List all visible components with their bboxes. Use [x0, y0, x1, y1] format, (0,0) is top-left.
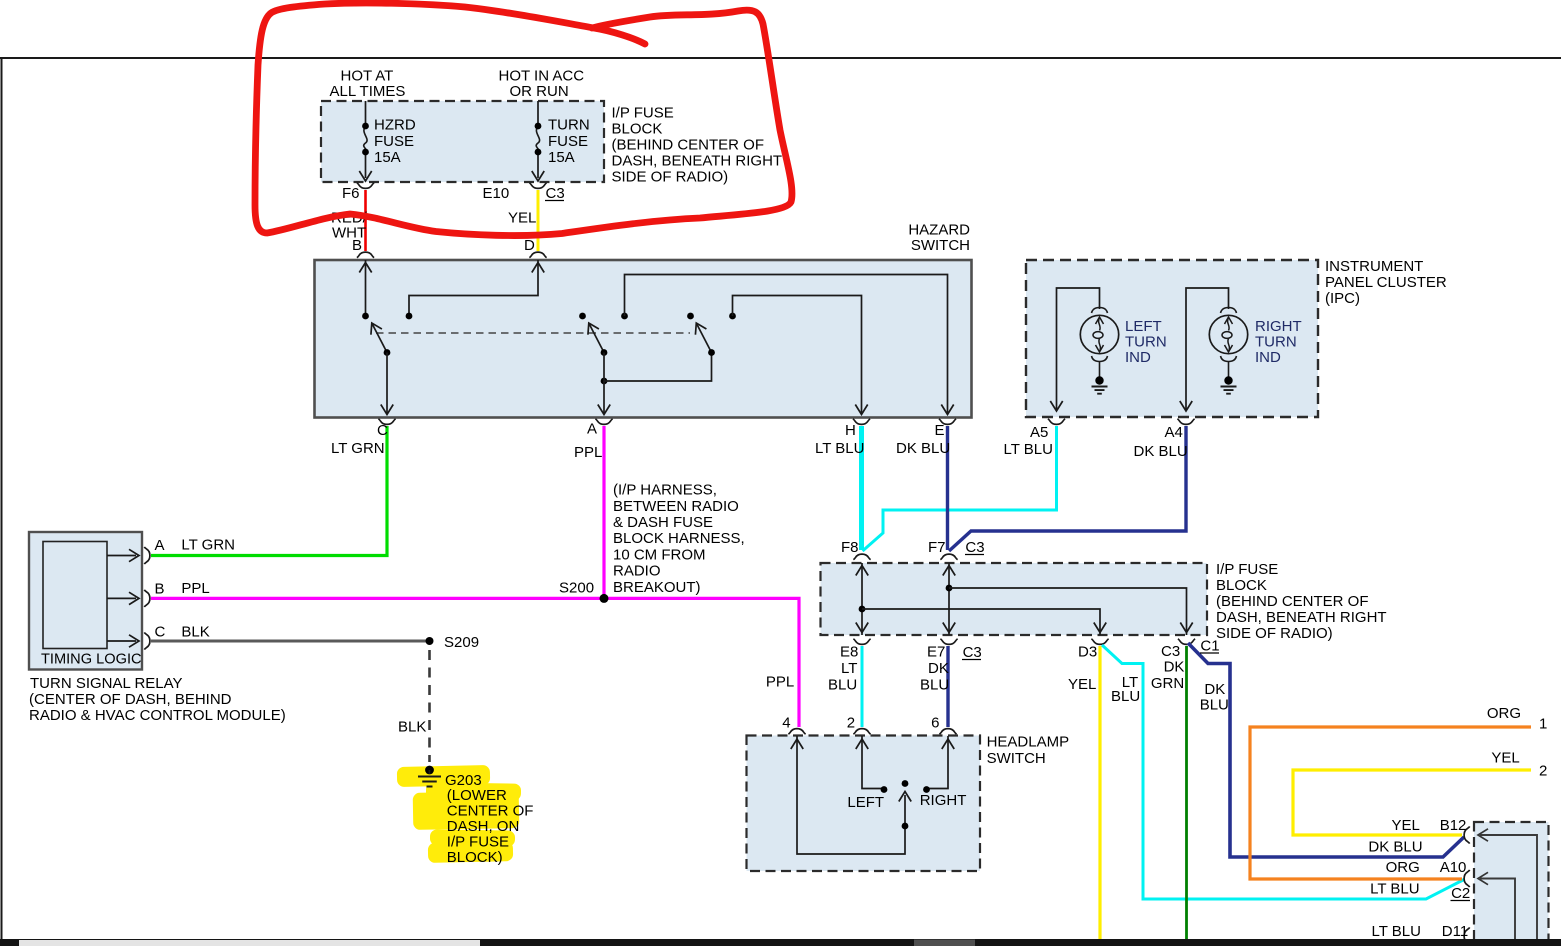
wire LT BLU H to F8 [859, 426, 864, 550]
svg-text:E8: E8 [840, 644, 858, 661]
svg-text:6: 6 [931, 715, 939, 732]
svg-text:LEFT: LEFT [1125, 318, 1162, 335]
svg-text:LEFT: LEFT [847, 794, 884, 811]
svg-text:BLK: BLK [181, 623, 209, 640]
turn signal relay outer box [29, 532, 142, 670]
svg-text:ORG: ORG [1386, 859, 1420, 876]
fuse block feed E7 [948, 563, 950, 635]
branch to C3 [949, 588, 1187, 635]
wire DK BLU C1 to B12 [1188, 643, 1464, 857]
connector A [595, 419, 612, 425]
svg-text:BLOCK: BLOCK [612, 121, 663, 138]
branch to D3 [862, 609, 1100, 635]
wire PPL A to S200 to headlamp 4 [602, 426, 605, 598]
svg-text:BLU: BLU [1111, 688, 1140, 705]
svg-text:B12: B12 [1440, 817, 1467, 834]
I/P fuse block (middle) [821, 563, 1208, 635]
connector B12 [1464, 826, 1470, 843]
svg-text:IND: IND [1255, 349, 1281, 366]
svg-text:D3: D3 [1078, 644, 1097, 661]
connector relay B [144, 590, 150, 607]
yellow highlighter marks over G203 note [397, 765, 490, 787]
hand-drawn red annotation loop [255, 3, 792, 236]
svg-text:RADIO & HVAC CONTROL MODULE): RADIO & HVAC CONTROL MODULE) [29, 707, 286, 724]
wire ORG to A10 [1250, 727, 1531, 879]
svg-text:H: H [845, 422, 856, 439]
svg-text:IND: IND [1125, 349, 1151, 366]
splice S200 [600, 594, 609, 603]
svg-text:D11: D11 [1442, 923, 1468, 940]
svg-text:DK BLU: DK BLU [1368, 839, 1422, 856]
svg-text:PPL: PPL [181, 580, 209, 597]
wire DK BLU E7 to headlamp 6 [946, 646, 949, 727]
svg-text:C3: C3 [965, 539, 984, 556]
right turn indicator lamp [1209, 308, 1247, 362]
svg-text:SIDE OF RADIO): SIDE OF RADIO) [1216, 625, 1333, 642]
connector A10 C2 [1464, 870, 1470, 887]
svg-text:D: D [524, 237, 535, 254]
connector relay C [144, 632, 150, 649]
svg-text:PPL: PPL [574, 444, 602, 461]
wire DK BLU A4 to F7 [949, 426, 1186, 551]
IPC wiring right [1186, 288, 1229, 411]
fuse HZRD FUSE 15A [365, 101, 367, 178]
svg-text:C3: C3 [963, 644, 982, 661]
hazard switch box [315, 260, 972, 418]
connector F8 [853, 554, 870, 560]
dashed BLK wire S209 to G203 [428, 650, 431, 762]
connector D [529, 252, 546, 258]
svg-text:BLU: BLU [1200, 697, 1229, 714]
svg-text:TURN: TURN [1255, 333, 1297, 350]
connector E8 [853, 639, 870, 645]
headlamp switch internal wiring [797, 736, 905, 854]
hazard switch internal wiring [365, 260, 367, 316]
svg-text:15A: 15A [374, 149, 401, 166]
I/P fuse block (top) [321, 101, 604, 182]
svg-text:HOT AT: HOT AT [341, 68, 394, 85]
svg-text:C1: C1 [1200, 637, 1219, 654]
wire LT GRN C to relay A [151, 426, 387, 556]
connector 4 [788, 729, 805, 735]
svg-text:GRN: GRN [1151, 675, 1184, 692]
svg-text:LT GRN: LT GRN [331, 440, 385, 457]
svg-text:DASH, BENEATH RIGHT: DASH, BENEATH RIGHT [1216, 609, 1387, 626]
svg-text:LT BLU: LT BLU [1372, 923, 1421, 940]
switch pole 2 [589, 324, 604, 353]
svg-text:YEL: YEL [508, 210, 536, 227]
svg-text:10 CM FROM: 10 CM FROM [613, 546, 706, 563]
ground (left lamp) [1095, 376, 1103, 384]
wire RED/WHT F6 to B [364, 190, 367, 251]
svg-text:OR RUN: OR RUN [510, 83, 569, 100]
instrument panel cluster box [1026, 260, 1318, 417]
svg-text:BLOCK HARNESS,: BLOCK HARNESS, [613, 530, 745, 547]
relay output arrows [107, 555, 136, 557]
svg-text:HZRD: HZRD [374, 117, 416, 134]
svg-text:SWITCH: SWITCH [911, 237, 970, 254]
svg-text:E: E [935, 422, 945, 439]
wire LT BLU E8 to headlamp 2 [861, 646, 864, 727]
connector F6 [357, 183, 374, 189]
svg-text:A: A [587, 421, 597, 438]
switch gang dashed link [376, 332, 690, 334]
svg-text:HAZARD: HAZARD [908, 222, 970, 239]
svg-text:DK: DK [1204, 681, 1225, 698]
svg-text:YEL: YEL [1491, 750, 1519, 767]
svg-text:S209: S209 [444, 634, 479, 651]
svg-text:A4: A4 [1165, 424, 1183, 441]
svg-text:C3: C3 [1161, 643, 1180, 660]
connector E10 C3 [529, 183, 546, 189]
left turn indicator lamp [1080, 308, 1118, 362]
wire DK GRN C3 down [1185, 646, 1188, 940]
svg-text:BETWEEN RADIO: BETWEEN RADIO [613, 498, 739, 515]
rail to H [733, 296, 862, 415]
svg-text:(I/P HARNESS,: (I/P HARNESS, [613, 482, 717, 499]
connector E7 C3 [940, 639, 957, 645]
timing logic inner box [43, 542, 107, 649]
wire YEL E10 to D [537, 190, 540, 251]
svg-text:BLK: BLK [398, 719, 426, 736]
svg-text:FUSE: FUSE [548, 133, 588, 150]
connector relay A [144, 547, 150, 564]
svg-text:B: B [155, 581, 165, 598]
svg-text:PANEL CLUSTER: PANEL CLUSTER [1325, 274, 1447, 291]
connector A5 [1048, 419, 1065, 425]
svg-text:E7: E7 [927, 644, 945, 661]
svg-text:LT BLU: LT BLU [815, 440, 864, 457]
svg-text:BLOCK: BLOCK [1216, 577, 1267, 594]
bottom scrollbar [0, 939, 1561, 946]
svg-text:& DASH FUSE: & DASH FUSE [613, 514, 713, 531]
svg-text:C3: C3 [546, 185, 565, 202]
wire LT BLU D3 branch to C2 [1102, 645, 1464, 899]
fuse TURN FUSE 15A [537, 101, 539, 178]
svg-text:YEL: YEL [1392, 817, 1420, 834]
right connector box (radio) [1474, 822, 1549, 946]
svg-text:B: B [352, 237, 362, 254]
wire DK BLU E to F7 [946, 426, 949, 550]
svg-text:SWITCH: SWITCH [987, 750, 1046, 767]
svg-text:TURN SIGNAL RELAY: TURN SIGNAL RELAY [30, 675, 183, 692]
svg-text:DK BLU: DK BLU [896, 440, 950, 457]
svg-text:2: 2 [847, 715, 855, 732]
connector E [939, 419, 956, 425]
svg-text:DASH, BENEATH RIGHT: DASH, BENEATH RIGHT [612, 153, 783, 170]
svg-text:F7: F7 [928, 539, 946, 556]
svg-text:E10: E10 [483, 185, 510, 202]
svg-text:(BEHIND CENTER OF: (BEHIND CENTER OF [1216, 593, 1369, 610]
svg-text:TURN: TURN [548, 117, 590, 134]
svg-text:RIGHT: RIGHT [920, 792, 967, 809]
svg-text:ORG: ORG [1487, 705, 1521, 722]
svg-text:S200: S200 [559, 579, 594, 596]
svg-text:DK: DK [1164, 659, 1185, 676]
wire BLK relay C to S209 [151, 640, 430, 643]
ground (right lamp) [1224, 376, 1232, 384]
headlamp switch box [747, 736, 981, 872]
svg-text:ALL TIMES: ALL TIMES [330, 83, 406, 100]
svg-text:RADIO: RADIO [613, 563, 661, 580]
svg-text:LT: LT [841, 660, 857, 677]
svg-text:BREAKOUT): BREAKOUT) [613, 579, 701, 596]
svg-text:RIGHT: RIGHT [1255, 318, 1302, 335]
splice S209 [426, 637, 434, 645]
svg-text:HEADLAMP: HEADLAMP [987, 734, 1070, 751]
wire LT BLU A5 to F8 [863, 426, 1057, 551]
svg-text:I/P FUSE: I/P FUSE [1216, 561, 1278, 578]
connector H [853, 419, 870, 425]
svg-text:F6: F6 [342, 185, 360, 202]
svg-text:C2: C2 [1451, 885, 1470, 902]
IPC wiring left [1057, 288, 1100, 411]
svg-text:DK BLU: DK BLU [1134, 443, 1188, 460]
switch pole 1 [372, 324, 387, 353]
svg-text:(CENTER OF DASH, BEHIND: (CENTER OF DASH, BEHIND [29, 691, 232, 708]
connector 2 [853, 729, 870, 735]
svg-text:BLU: BLU [828, 677, 857, 694]
svg-text:LT GRN: LT GRN [181, 536, 235, 553]
connector C [378, 419, 395, 425]
svg-text:FUSE: FUSE [374, 133, 414, 150]
svg-text:BLOCK): BLOCK) [447, 849, 503, 866]
svg-text:2: 2 [1539, 763, 1547, 780]
svg-text:BLU: BLU [920, 677, 949, 694]
connector F7 C3 [940, 554, 957, 560]
svg-text:(BEHIND CENTER OF: (BEHIND CENTER OF [612, 137, 765, 154]
svg-text:C: C [155, 624, 166, 641]
svg-text:INSTRUMENT: INSTRUMENT [1325, 258, 1423, 275]
svg-text:A: A [155, 537, 165, 554]
svg-text:(IPC): (IPC) [1325, 290, 1360, 307]
svg-text:YEL: YEL [1068, 676, 1096, 693]
rail to E [625, 275, 948, 415]
ground G203 [425, 766, 434, 775]
connector D11 [1464, 927, 1470, 944]
wire YEL 2 to B12 [1293, 770, 1531, 835]
svg-text:4: 4 [782, 715, 790, 732]
connector C3 C1 [1178, 639, 1195, 645]
connector B [357, 252, 374, 258]
svg-text:LT BLU: LT BLU [1370, 881, 1419, 898]
fuse block feed E8 [861, 563, 863, 635]
svg-text:A5: A5 [1030, 424, 1048, 441]
svg-text:SIDE OF RADIO): SIDE OF RADIO) [612, 169, 729, 186]
svg-text:I/P FUSE: I/P FUSE [612, 105, 674, 122]
svg-text:TIMING LOGIC: TIMING LOGIC [41, 652, 142, 668]
switch pole 3 [697, 324, 712, 353]
wire YEL D3 down [1098, 646, 1101, 940]
svg-text:HOT IN ACC: HOT IN ACC [499, 68, 585, 85]
connector A4 [1177, 419, 1194, 425]
svg-text:1: 1 [1539, 716, 1547, 733]
svg-text:PPL: PPL [766, 673, 794, 690]
connector D3 [1091, 639, 1108, 645]
svg-text:DK: DK [928, 660, 949, 677]
svg-text:A10: A10 [1440, 859, 1467, 876]
svg-text:F8: F8 [841, 539, 859, 556]
connector 6 [939, 729, 956, 735]
svg-text:TURN: TURN [1125, 333, 1167, 350]
svg-text:15A: 15A [548, 149, 575, 166]
svg-text:LT BLU: LT BLU [1004, 441, 1053, 458]
svg-text:C: C [377, 422, 388, 439]
page frame [0, 57, 1561, 59]
